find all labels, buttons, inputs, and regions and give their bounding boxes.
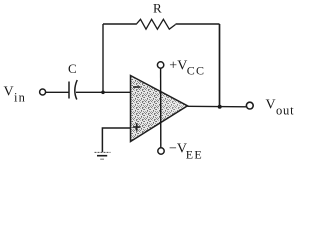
svg-text:EE: EE (186, 148, 203, 162)
wire: Vin terminal to capacitor (46, 91, 69, 93)
terminal: -Vee (158, 148, 164, 154)
resistor R (136, 19, 176, 29)
op-amp non-inverting pin marker (plus) (133, 123, 141, 131)
svg-text:CC: CC (187, 64, 205, 78)
label +Vcc (169, 59, 205, 78)
node: junction of feedback and output (218, 105, 222, 109)
capacitor C (69, 80, 77, 100)
terminal: Vin input (40, 89, 46, 95)
wire: resistor to right riser (176, 23, 220, 25)
svg-text:in: in (14, 91, 26, 105)
op-amp U1 (131, 76, 188, 142)
node: junction of feedback and input (101, 91, 105, 95)
wire: left feedback riser (102, 24, 104, 92)
wire: non-inverting input to ground (102, 128, 130, 152)
wire: top feedback, left riser corner to resistor (103, 23, 136, 25)
label Vout (266, 98, 295, 118)
wire: right feedback riser (219, 24, 221, 107)
op-amp inverting pin marker (minus) (133, 86, 141, 88)
svg-text:+V: +V (169, 59, 187, 74)
svg-text:V: V (266, 98, 276, 113)
label Vin (4, 85, 27, 105)
terminal: Vout (246, 102, 253, 109)
terminal: +Vcc (157, 62, 163, 68)
svg-text:V: V (4, 85, 14, 100)
svg-text:out: out (276, 104, 294, 118)
ground (95, 152, 111, 159)
wire: power rail from +Vcc terminal through op-amp to -Vee terminal (160, 68, 162, 147)
svg-text:C: C (68, 61, 77, 76)
svg-text:−V: −V (169, 142, 187, 157)
wire: capacitor to op-amp inverting input (76, 91, 131, 93)
wire: op-amp output to Vout terminal (188, 105, 247, 108)
svg-text:R: R (153, 1, 162, 16)
label -Vee (169, 142, 203, 162)
